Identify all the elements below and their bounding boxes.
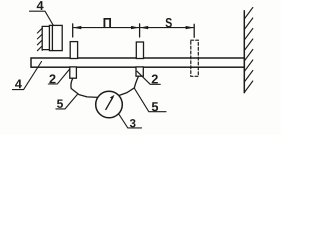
left bracket hatching [37,28,42,51]
left bracket top stub [42,25,49,27]
label 3 [130,119,136,127]
arrowhead S right [186,26,194,29]
dimension line S [140,27,193,29]
needle inside circle [106,98,113,110]
label 5 [152,102,158,111]
beam (monorail) [31,58,244,67]
cable left (item 5) [71,78,98,97]
left bracket hatched anchor line [41,27,43,51]
left bracket inner flange line [51,25,53,50]
label 2 [152,74,158,83]
label S [165,18,171,27]
label 2 [49,74,55,83]
left bracket block [49,25,62,50]
tab 1 above beam [70,42,77,59]
dimension extension tick left (tab1) [72,24,74,37]
leader of right label 5 [134,88,166,111]
arrowhead п left [73,26,81,29]
leader of label 3 [119,114,142,128]
dashed hidden tab [191,40,199,76]
hanger 1 below beam [70,67,77,78]
dimension extension tick right (hidden tab) [193,24,195,37]
leader of top label 4 [30,11,54,25]
cable right (item 5) [119,76,138,95]
arrowhead п right [131,26,139,29]
leader of bottom label 4 [12,62,41,90]
label 4 [37,1,44,10]
circle (tensioner / pulley, item 3) [96,91,123,118]
tab 2 above beam [136,42,143,59]
needle arrowhead [110,95,115,100]
wall hatching [244,8,253,93]
label 4 [15,79,22,88]
dimension line п [74,27,139,29]
left bracket bottom stub [42,49,49,51]
dimension extension tick middle (tab2) [139,24,141,37]
leader of left label 5 [56,94,78,109]
label П [103,18,111,27]
hanger 2 below beam [136,67,143,76]
label 5 [57,99,63,107]
wall (right fixed support) [243,11,245,93]
leader of left label 2 [48,70,69,84]
arrowhead S left [140,26,148,29]
leader of right label 2 [137,71,160,84]
